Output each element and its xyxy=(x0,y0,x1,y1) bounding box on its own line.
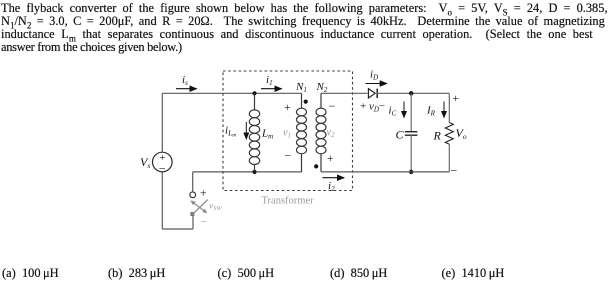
svg-text:Transformer: Transformer xyxy=(262,195,315,206)
wire bottom rail right xyxy=(321,171,449,173)
transformer dashed box xyxy=(223,71,353,191)
svg-text:Lm: Lm xyxy=(261,128,273,141)
svg-text:is: is xyxy=(182,74,188,87)
svg-text:iD: iD xyxy=(370,69,378,82)
node: Lm bottom junction xyxy=(252,170,256,174)
svg-text:−: − xyxy=(329,99,336,113)
arrow iLm xyxy=(225,122,246,139)
source Vs xyxy=(153,152,173,176)
label v1 xyxy=(283,128,291,140)
label vSW xyxy=(209,201,222,213)
node: Lm top junction xyxy=(252,91,256,95)
svg-text:iC: iC xyxy=(389,105,397,118)
svg-text:Vo: Vo xyxy=(456,126,467,141)
wire primary bottom rail xyxy=(193,171,302,173)
arrow iD xyxy=(366,69,387,84)
svg-text:+: + xyxy=(200,188,207,200)
wire diode to top-right corner xyxy=(376,92,449,94)
svg-text:N1: N1 xyxy=(295,81,307,94)
label R xyxy=(433,129,442,143)
label - for vSW xyxy=(201,216,207,228)
switch SW xyxy=(190,192,208,216)
label - for v1 xyxy=(285,149,292,163)
label N2 xyxy=(316,81,328,94)
label + for v1 xyxy=(284,102,291,114)
arrow i1 xyxy=(261,74,282,89)
label C xyxy=(396,128,405,142)
diode D xyxy=(368,89,377,98)
wire left vertical upper xyxy=(161,93,163,152)
label - for v2 xyxy=(329,99,336,113)
arrow iC xyxy=(389,102,405,118)
svg-text:i1: i1 xyxy=(266,74,273,87)
arrow is xyxy=(176,74,197,89)
node top capacitor junction xyxy=(409,91,413,95)
node bottom capacitor junction xyxy=(409,170,413,174)
label v2 xyxy=(327,127,336,139)
svg-text:i2: i2 xyxy=(328,180,335,193)
wire left vertical lower xyxy=(161,172,163,229)
label - for Vo xyxy=(451,164,458,178)
label + for v2 xyxy=(327,153,334,165)
wire right vertical upper xyxy=(448,93,450,122)
svg-text:+ vD−: + vD− xyxy=(360,101,385,114)
label + vD - xyxy=(360,101,385,114)
svg-text:iLm: iLm xyxy=(225,125,236,139)
wire switch lower stub xyxy=(192,216,194,229)
svg-text:vSW: vSW xyxy=(209,201,222,213)
question text xyxy=(1,1,608,16)
label Vs xyxy=(140,155,150,170)
svg-text:+: + xyxy=(327,153,334,165)
capacitor C xyxy=(405,93,418,172)
label N1 xyxy=(295,81,307,94)
arrow iR xyxy=(426,102,444,118)
svg-text:Vs: Vs xyxy=(140,155,150,170)
label + for vSW xyxy=(200,188,207,200)
label + for Vo xyxy=(453,93,460,105)
answer choices xyxy=(0,0,609,1)
winding N1 primary xyxy=(297,93,307,172)
inductor Lm xyxy=(249,93,259,172)
svg-text:−: − xyxy=(451,164,458,178)
wire right vertical lower xyxy=(448,144,450,172)
wire secondary top to diode xyxy=(321,92,368,94)
svg-text:+: + xyxy=(284,102,291,114)
arrow i2 xyxy=(323,178,345,193)
wire switch upper stub xyxy=(192,172,194,192)
svg-text:v2: v2 xyxy=(327,127,336,139)
wire top-left from Vs to primary xyxy=(162,92,301,94)
label Vo xyxy=(456,126,467,141)
svg-text:N2: N2 xyxy=(316,81,328,94)
svg-text:−: − xyxy=(285,149,292,163)
svg-text:IR: IR xyxy=(426,105,436,118)
svg-text:−: − xyxy=(201,216,207,228)
svg-text:+: + xyxy=(453,93,460,105)
wire bottom-left xyxy=(162,228,193,230)
winding N2 secondary xyxy=(316,93,326,172)
polarity dot N2 xyxy=(314,164,318,168)
resistor R xyxy=(445,123,453,145)
svg-text:C: C xyxy=(396,128,405,142)
svg-text:R: R xyxy=(433,129,442,143)
polarity dot N1 xyxy=(304,100,308,104)
label Lm xyxy=(261,128,273,141)
svg-text:v1: v1 xyxy=(283,128,291,140)
label Transformer xyxy=(262,195,315,206)
